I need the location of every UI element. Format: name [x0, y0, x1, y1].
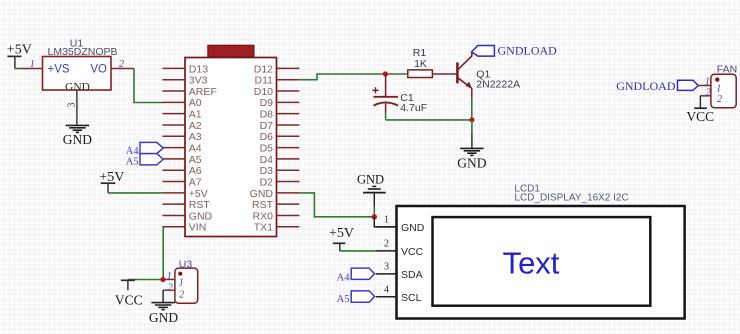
svg-text:A6: A6	[189, 165, 202, 177]
FAN pin 2 stub	[700, 88, 711, 99]
power flag VCC (at U3)	[115, 280, 143, 307]
net flag GNDLOAD (at FAN)	[616, 79, 698, 93]
net flag A4 (at IC)	[126, 142, 164, 157]
svg-text:GND: GND	[63, 132, 92, 147]
FAN pin 1 stub	[698, 76, 711, 87]
svg-text:1: 1	[384, 215, 389, 226]
svg-text:U3: U3	[179, 258, 193, 270]
svg-text:GND: GND	[357, 172, 384, 186]
svg-text:A5: A5	[189, 154, 202, 166]
wire junction to VCC flag	[128, 279, 163, 281]
net flag A4 (at LCD)	[337, 268, 375, 283]
svg-text:1: 1	[705, 76, 710, 87]
wire +5V to LCD VCC	[340, 250, 376, 252]
svg-text:1K: 1K	[414, 58, 427, 70]
IC right pin D8	[260, 109, 300, 121]
svg-text:D3: D3	[260, 165, 274, 177]
IC right pin D12	[254, 63, 300, 75]
resistor R1 1K	[408, 47, 433, 78]
power flag +5V (mid-left)	[99, 170, 124, 193]
IC left pin A3	[162, 131, 201, 143]
svg-text:A2: A2	[189, 120, 202, 132]
svg-text:1: 1	[716, 84, 721, 95]
svg-text:SDA: SDA	[401, 269, 423, 281]
IC right pin D2	[260, 176, 300, 188]
IC left pin D13	[162, 63, 208, 75]
svg-text:FAN: FAN	[717, 64, 737, 76]
svg-text:2N2222A: 2N2222A	[476, 79, 520, 91]
svg-text:A4: A4	[337, 273, 351, 284]
IC right pin D6	[260, 131, 300, 143]
svg-text:VO: VO	[90, 64, 107, 76]
svg-text:+5V: +5V	[7, 43, 32, 58]
svg-text:A3: A3	[189, 131, 202, 143]
U1 pin 2 stub	[111, 59, 134, 70]
svg-text:D8: D8	[260, 109, 274, 121]
IC right pin D4	[260, 154, 300, 166]
IC left pin +5V	[162, 188, 207, 200]
ground under U3	[149, 303, 178, 326]
wire emitter down	[471, 98, 473, 120]
svg-text:D11: D11	[255, 75, 274, 87]
IC right pin D9	[260, 97, 300, 109]
power flag VCC (at FAN)	[686, 96, 714, 124]
svg-text:+5V: +5V	[189, 188, 208, 200]
wire +5V to U1 pin 1	[14, 68, 19, 70]
connector FAN	[711, 64, 737, 108]
svg-text:+VS: +VS	[48, 64, 70, 76]
IC left pin A0	[162, 97, 201, 109]
svg-text:GND: GND	[189, 210, 213, 222]
svg-text:VCC: VCC	[401, 246, 424, 258]
capacitor C1 4.7uF	[372, 74, 427, 114]
svg-text:2: 2	[179, 290, 184, 301]
microcontroller (Arduino) body	[185, 45, 277, 236]
svg-text:4.7uF: 4.7uF	[400, 102, 427, 114]
IC left pin 3V3	[162, 75, 207, 87]
ground under U1	[63, 125, 92, 147]
junction at U3 pin 1	[160, 277, 165, 282]
svg-text:1: 1	[30, 59, 35, 70]
junction at C1 top	[383, 71, 388, 76]
svg-text:D13: D13	[189, 63, 208, 75]
junction at emitter node	[469, 117, 474, 122]
LCD pin 4 SCL	[376, 285, 422, 304]
IC right pin RX0	[253, 210, 300, 222]
svg-text:RX0: RX0	[253, 210, 274, 222]
U3 pin 1 stub	[163, 271, 175, 282]
IC left pin GND	[162, 210, 212, 222]
svg-text:RST: RST	[189, 199, 211, 211]
IC left pin A7	[162, 176, 201, 188]
net flag A5 (at LCD)	[337, 291, 375, 305]
IC left pin A6	[162, 165, 201, 177]
IC right pin D7	[260, 120, 300, 132]
IC right pin D3	[260, 165, 300, 177]
svg-text:TX1: TX1	[254, 222, 273, 234]
U1 pin 3 stub	[67, 90, 78, 125]
power flag +5V (at LCD)	[329, 226, 354, 251]
wire C1 bottom to emitter node	[385, 112, 387, 120]
svg-text:+5V: +5V	[329, 226, 354, 241]
svg-text:GND: GND	[250, 188, 274, 200]
svg-text:D2: D2	[260, 176, 274, 188]
svg-text:LCD_DISPLAY_16X2 I2C: LCD_DISPLAY_16X2 I2C	[514, 192, 628, 203]
LCD pin 1 GND	[376, 215, 425, 234]
wire R1 to Q1 base	[432, 73, 456, 75]
power flag +5V (top-left)	[7, 43, 32, 69]
svg-text:A5: A5	[337, 294, 350, 305]
svg-text:A7: A7	[189, 176, 202, 188]
svg-text:AREF: AREF	[189, 86, 217, 98]
svg-text:A0: A0	[189, 97, 202, 109]
svg-text:Text: Text	[503, 246, 560, 281]
IC right pin D11	[255, 75, 300, 87]
wire +5V to IC +5V pin	[108, 192, 163, 194]
svg-text:GND: GND	[149, 310, 178, 325]
IC right pin GND	[250, 188, 300, 200]
wire VIN down to U3/VCC	[162, 227, 164, 280]
sensor U1 LM35DZNOPB	[43, 38, 118, 94]
IC right pin TX1	[254, 222, 300, 234]
IC left pin A2	[162, 120, 201, 132]
svg-text:GND: GND	[457, 155, 486, 170]
svg-text:D7: D7	[260, 120, 274, 132]
IC right pin D5	[260, 143, 300, 155]
wire U3 pin 2 to ground	[162, 290, 164, 302]
svg-text:VCC: VCC	[115, 293, 143, 308]
wire IC GND to LCD pin 1	[299, 193, 374, 217]
svg-text:RST: RST	[252, 199, 274, 211]
net flag A5 (at IC)	[126, 154, 164, 168]
IC left pin A5	[162, 154, 201, 166]
wire ground stem to junction	[373, 206, 375, 217]
svg-text:D9: D9	[260, 97, 274, 109]
svg-text:A4: A4	[189, 143, 202, 155]
svg-text:D10: D10	[254, 86, 273, 98]
svg-text:2: 2	[168, 283, 173, 294]
IC left pin A1	[162, 109, 201, 121]
ground under Q1	[457, 148, 486, 170]
svg-text:GNDLOAD: GNDLOAD	[616, 79, 676, 93]
svg-text:1: 1	[167, 271, 172, 282]
svg-text:2: 2	[706, 88, 711, 99]
junction at LCD pin 1	[372, 214, 377, 219]
svg-text:D6: D6	[260, 131, 274, 143]
IC left pin A4	[162, 143, 201, 155]
IC right pin RST	[252, 199, 299, 211]
U1 pin 1 stub	[19, 59, 42, 70]
LCD pin 2 VCC	[376, 239, 424, 258]
wire D11 to R1	[299, 74, 408, 80]
svg-text:1: 1	[179, 277, 184, 288]
svg-text:4: 4	[384, 285, 389, 296]
svg-text:VCC: VCC	[686, 109, 714, 124]
connector U3	[175, 258, 198, 303]
net flag GNDLOAD (at Q1 collector)	[472, 44, 558, 58]
IC left pin VIN	[162, 222, 206, 234]
svg-text:VIN: VIN	[189, 222, 207, 234]
wire U1 VO to A0	[134, 69, 163, 103]
LCD pin 3 SDA	[376, 262, 423, 281]
svg-text:SCL: SCL	[401, 292, 422, 304]
wire node to ground	[471, 120, 473, 134]
svg-text:2: 2	[717, 94, 722, 105]
svg-text:GNDLOAD: GNDLOAD	[498, 44, 558, 58]
svg-text:LM35DZNOPB: LM35DZNOPB	[48, 46, 118, 58]
svg-text:2: 2	[119, 59, 124, 70]
svg-text:A5: A5	[126, 156, 139, 167]
svg-text:A1: A1	[189, 109, 202, 121]
svg-text:D4: D4	[260, 154, 274, 166]
svg-text:3: 3	[384, 262, 389, 273]
svg-text:3: 3	[67, 103, 78, 108]
U3 pin 2 stub	[163, 283, 175, 294]
ground above LCD (inverted)	[357, 172, 386, 206]
transistor Q1 2N2222A	[457, 52, 520, 98]
svg-text:D12: D12	[254, 63, 273, 75]
svg-text:D5: D5	[260, 143, 274, 155]
wire junction to LCD pin 1	[374, 217, 396, 227]
svg-text:GND: GND	[401, 222, 425, 234]
LCD1 display module	[397, 183, 685, 318]
svg-text:3V3: 3V3	[189, 75, 208, 87]
IC right pin D10	[254, 86, 300, 98]
IC left pin AREF	[162, 86, 216, 98]
svg-text:2: 2	[384, 239, 389, 250]
IC left pin RST	[162, 199, 210, 211]
